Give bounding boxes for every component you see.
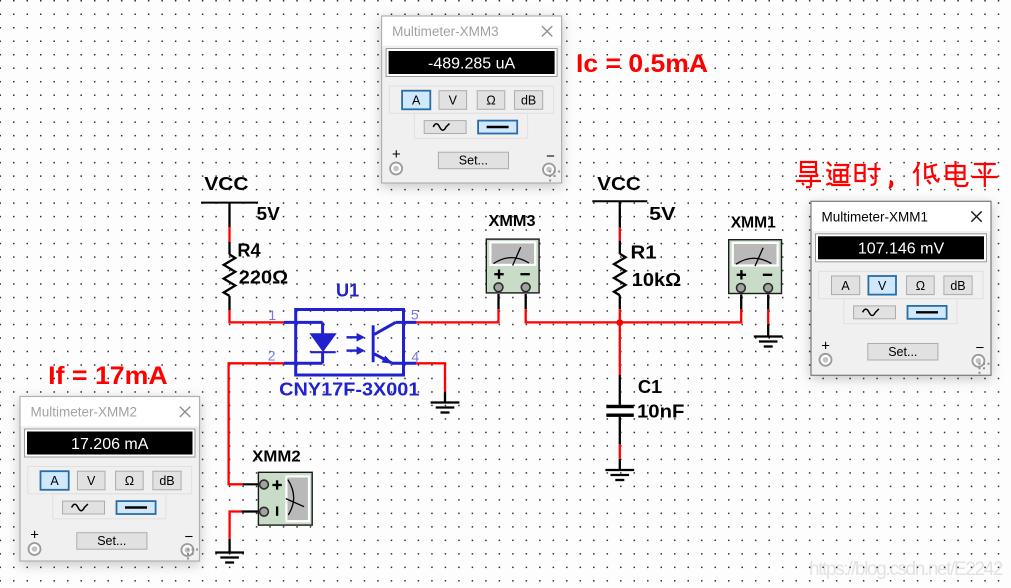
multimeter icon XMM3 <box>486 239 539 293</box>
svg-text:CNY17F-3X001: CNY17F-3X001 <box>279 380 419 400</box>
svg-text:Multimeter-XMM2: Multimeter-XMM2 <box>31 405 138 420</box>
svg-text:Set...: Set... <box>888 345 917 359</box>
svg-text:4: 4 <box>411 349 419 365</box>
svg-text:10nF: 10nF <box>637 401 684 421</box>
svg-text:R1: R1 <box>631 243 657 263</box>
annotation 导通时，低电平 <box>796 161 998 188</box>
svg-text:Ω: Ω <box>916 279 925 293</box>
instrument dialog Multimeter-XMM2 <box>20 397 200 562</box>
svg-text:−: − <box>546 148 555 165</box>
svg-text:VCC: VCC <box>597 174 641 194</box>
svg-text:A: A <box>412 94 421 108</box>
wire node-C1 <box>619 322 621 375</box>
instrument dialog Multimeter-XMM1 <box>811 201 991 375</box>
wire VCC-R1 <box>619 228 621 241</box>
wire node-XMM1.plus <box>620 309 741 322</box>
resistor R4 <box>228 242 230 255</box>
svg-text:A: A <box>50 474 59 488</box>
power VCC (right) <box>592 200 647 202</box>
svg-text:−: − <box>185 529 194 546</box>
svg-text:+: + <box>821 337 830 354</box>
svg-text:XMM2: XMM2 <box>252 449 301 466</box>
ground (below C1) <box>605 469 634 471</box>
svg-text:17.206 mA: 17.206 mA <box>71 436 149 453</box>
svg-text:VCC: VCC <box>204 174 248 194</box>
resistor R1 <box>619 241 621 254</box>
svg-text:2: 2 <box>268 347 276 363</box>
svg-text:XMM1: XMM1 <box>731 214 776 231</box>
power VCC (left) <box>201 202 258 204</box>
ground (below U1 pin4) <box>431 401 460 403</box>
svg-text:-489.285 uA: -489.285 uA <box>428 55 516 72</box>
svg-text:10kΩ: 10kΩ <box>632 270 681 290</box>
wire R1-node <box>619 309 621 322</box>
svg-text:V: V <box>449 94 458 108</box>
svg-text:5V: 5V <box>649 204 675 224</box>
svg-text:−: − <box>976 339 985 356</box>
svg-text:R4: R4 <box>237 241 260 261</box>
svg-text:5V: 5V <box>257 204 280 224</box>
svg-text:Ic = 0.5mA: Ic = 0.5mA <box>576 50 708 78</box>
wire XMM1.minus-GND <box>767 295 769 310</box>
wire U1.4-GND <box>416 363 445 392</box>
svg-text:+: + <box>30 527 39 544</box>
svg-text:Multimeter-XMM1: Multimeter-XMM1 <box>822 209 929 224</box>
svg-text:U1: U1 <box>336 281 359 301</box>
svg-text:107.146 mV: 107.146 mV <box>858 241 945 258</box>
svg-text:1: 1 <box>268 307 276 323</box>
svg-text:If = 17mA: If = 17mA <box>48 362 168 390</box>
svg-text:dB: dB <box>159 474 174 488</box>
wire C1-GND <box>619 444 621 459</box>
svg-text:C1: C1 <box>638 377 661 397</box>
wire XMM3.minus-node <box>525 294 527 309</box>
wire U1.5-XMM3.plus <box>416 309 498 322</box>
svg-text:5: 5 <box>411 307 419 323</box>
svg-text:+: + <box>392 146 401 163</box>
wire VCC-R4 <box>228 227 230 242</box>
svg-text:Ω: Ω <box>486 94 495 108</box>
wire R4-U1.1 <box>230 310 285 322</box>
svg-text:dB: dB <box>950 279 965 293</box>
svg-text:Ω: Ω <box>125 474 134 488</box>
multimeter icon XMM2 (rotated) <box>258 472 312 525</box>
svg-text:XMM3: XMM3 <box>489 213 536 230</box>
capacitor C1 <box>619 375 621 405</box>
svg-text:V: V <box>878 279 887 293</box>
multimeter icon XMM1 <box>729 240 782 294</box>
op-amp U1 optocoupler CNY17F-3X001 <box>284 310 416 376</box>
svg-text:A: A <box>841 279 850 293</box>
svg-text:Multimeter-XMM3: Multimeter-XMM3 <box>392 24 499 39</box>
node junction (R1/C1/XMM3/XMM1) <box>616 319 623 326</box>
ground (below XMM2) <box>215 551 244 553</box>
svg-text:Set...: Set... <box>459 154 488 168</box>
wire U1.2-XMM2.plus <box>229 363 284 484</box>
instrument dialog Multimeter-XMM3 <box>382 16 562 183</box>
svg-text:dB: dB <box>521 94 536 108</box>
svg-text:Set...: Set... <box>97 534 126 548</box>
svg-text:220Ω: 220Ω <box>239 268 288 288</box>
wire XMM2.minus-GND <box>242 510 260 512</box>
ground (below XMM1) <box>754 335 783 337</box>
svg-text:V: V <box>87 474 96 488</box>
